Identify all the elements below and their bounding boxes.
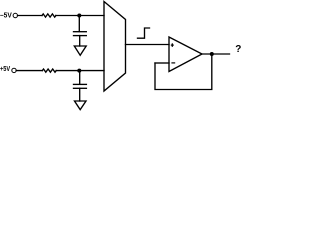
multiplexer U1	[104, 2, 126, 92]
ground bottom	[75, 101, 87, 110]
svg-text:+5V: +5V	[0, 64, 10, 73]
wire to ground bottom	[79, 88, 81, 101]
wire bottom rail right	[56, 70, 104, 72]
resistor R2	[42, 69, 56, 72]
terminal circle top	[13, 13, 17, 17]
svg-text:?: ?	[235, 44, 241, 55]
junction dot top	[77, 14, 81, 18]
wire output	[202, 53, 230, 55]
wire top rail right	[56, 15, 104, 17]
capacitor C1	[74, 32, 87, 36]
wire inverting input	[155, 62, 169, 64]
op-amp plus sign	[171, 43, 174, 47]
step waveform symbol	[138, 28, 150, 38]
wire cap stub bottom	[79, 71, 81, 85]
op-amp minus sign	[171, 62, 175, 64]
wire cap stub top	[78, 16, 80, 32]
svg-text:–5V: –5V	[0, 11, 12, 20]
ground top	[74, 46, 86, 55]
junction dot bottom	[77, 69, 81, 73]
wire to ground top	[79, 36, 81, 46]
resistor R1	[42, 14, 56, 17]
wire top rail left	[18, 15, 43, 17]
wire bottom rail left	[16, 70, 42, 72]
wire feedback loop	[155, 54, 212, 90]
wire mux output	[126, 44, 170, 46]
junction dot output	[210, 52, 214, 56]
op-amp U2	[169, 37, 202, 72]
terminal circle bottom	[12, 68, 16, 72]
capacitor C2	[74, 84, 87, 88]
